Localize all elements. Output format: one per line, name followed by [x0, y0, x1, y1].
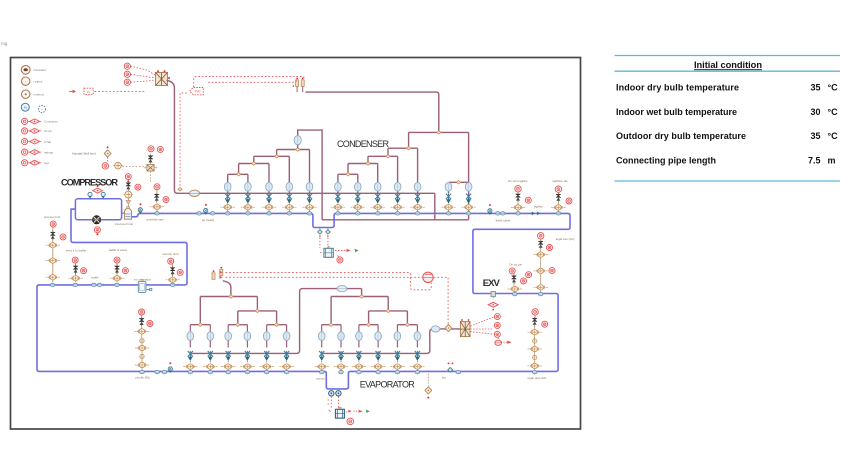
legend icon 4 blue pair [21, 103, 29, 111]
evaporator right distribution tree [322, 289, 418, 325]
svg-text:air (lead): air (lead) [202, 218, 214, 222]
left cascade riser/bridge [298, 130, 322, 220]
sensor circle [525, 197, 531, 203]
discharge component [156, 70, 171, 85]
defrost diamond below [427, 374, 429, 387]
pipe tee fitting [329, 323, 333, 327]
sensor circle [114, 257, 120, 263]
pipe tee fitting [386, 155, 390, 159]
svg-text:Indoor dry bulb temperature: Indoor dry bulb temperature [616, 82, 739, 92]
evaporator branch 8 (fan, air arrow, valve cluster, port) [334, 325, 348, 374]
svg-text:fresh cable: fresh cable [496, 219, 511, 223]
intercooler chain [127, 180, 129, 182]
svg-text:Pv0: Pv0 [195, 90, 201, 94]
svg-text:Connecting pipe length: Connecting pipe length [616, 156, 716, 166]
sensor circle [124, 63, 130, 69]
svg-text:baffle: baffle [91, 276, 99, 280]
sensor circle [566, 198, 572, 204]
svg-text:°C: °C [828, 82, 839, 92]
sensor circle [515, 186, 521, 192]
sensor circle [148, 146, 154, 152]
pipe tee fitting [437, 131, 441, 135]
svg-text:COMPRESSOR: COMPRESSOR [61, 177, 118, 187]
svg-text:35: 35 [810, 82, 820, 92]
svg-text:electric limit: electric limit [162, 252, 178, 256]
suction teal valve [138, 208, 142, 214]
condenser branch 6 (fan, air arrow, valve cluster, port) [331, 182, 345, 215]
svg-text:°C: °C [828, 107, 839, 117]
sensor circle [72, 257, 78, 263]
pipe tee fitting [274, 323, 278, 327]
svg-text:~: ~ [41, 107, 43, 111]
svg-text:techfrde rate: techfrde rate [146, 218, 164, 222]
svg-text:7.5: 7.5 [808, 156, 821, 166]
sensor circle [547, 245, 553, 251]
svg-text:35: 35 [810, 131, 820, 141]
control dashed lines top [180, 77, 304, 187]
svg-text:fan: fan [442, 375, 447, 379]
controller circle [423, 272, 433, 282]
pipe tee fitting [346, 173, 350, 177]
svg-text:CONDENSER: CONDENSER [337, 139, 390, 149]
pipe tee fitting [255, 309, 259, 313]
evaporator left distribution tree [190, 281, 286, 325]
svg-text:Rt: Rt [24, 106, 27, 110]
sensor circle [135, 184, 141, 190]
sensor circle [124, 79, 130, 85]
evaporator branch 2 (fan, air arrow, valve cluster, port) [203, 325, 217, 374]
pipe tee fitting [406, 146, 410, 150]
loop top fittings [88, 192, 105, 198]
condenser branch 2 (fan, air arrow, valve cluster, port) [241, 182, 255, 215]
sensor circle [532, 309, 538, 315]
svg-text:EXV: EXV [483, 278, 501, 289]
air inlet assembly left of condenser [197, 212, 202, 215]
evaporator branch 3 (fan, air arrow, valve cluster, port) [221, 325, 235, 374]
intercooler vessel [124, 207, 131, 220]
discharge riser + condenser header [167, 81, 435, 194]
legend icon 3 [22, 90, 30, 98]
svg-text:30: 30 [810, 107, 820, 117]
Pv tag box [190, 88, 204, 95]
condenser branch 7 (fan, air arrow, valve cluster, port) [351, 182, 365, 215]
evaporator branch 11 (fan, air arrow, valve cluster, port) [390, 325, 404, 374]
legend red item [22, 138, 42, 144]
diagram frame [11, 58, 581, 430]
svg-text:htr eb: htr eb [44, 129, 52, 133]
red oval + arrow [495, 340, 512, 345]
pipe tee fitting [252, 162, 256, 166]
svg-text:method: method [34, 93, 44, 97]
fan valve on return [448, 367, 453, 372]
outdoor fan unit [460, 319, 470, 337]
svg-text:baffle & wave: baffle & wave [109, 248, 128, 252]
sensor circle [163, 197, 169, 203]
sensor circle [494, 322, 500, 328]
svg-text:On strin agilley: On strin agilley [508, 179, 528, 183]
pipe tee fitting [386, 309, 390, 313]
bottom chain 4 (electric) [172, 264, 174, 282]
sensor circle [538, 233, 544, 239]
condenser branch 4 (fan, air arrow, valve cluster, port) [282, 182, 296, 215]
tan diamond on evap feed w/ sensor drop [445, 324, 452, 331]
evaporator branch 9 (fan, air arrow, valve cluster, port) [352, 325, 366, 374]
svg-text:Pv: Pv [87, 90, 91, 94]
header mid ellipse [337, 285, 347, 291]
receiver diamonds under condenser [318, 228, 331, 237]
pipe tee fitting [198, 323, 202, 327]
sensor circle [347, 418, 354, 425]
legend icon 1 [21, 65, 30, 74]
evaporator branch 10 (fan, air arrow, valve cluster, port) [371, 325, 385, 374]
sensor circle [521, 278, 527, 284]
sensor circle [177, 269, 183, 275]
left chain (saturated) [52, 227, 54, 282]
sensor circle [94, 227, 100, 233]
sight glass [324, 247, 333, 257]
condenser mid distribution tree [338, 132, 469, 193]
bottom chain 2 [74, 263, 76, 282]
sensor circle [60, 234, 66, 240]
sensor circle [526, 272, 532, 278]
sensor circle [124, 71, 130, 77]
legend red item [22, 149, 42, 155]
condenser left distribution tree [228, 150, 310, 194]
sensor circle [81, 268, 87, 274]
pipe tee fitting [359, 295, 363, 299]
svg-text:accum: accum [316, 376, 325, 380]
pipe tee fitting [229, 295, 233, 299]
gray comp on blue + diamond below [491, 292, 495, 300]
evaporator branch 1 (fan, air arrow, valve cluster, port) [183, 325, 197, 374]
svg-text:legal can (An): legal can (An) [556, 237, 575, 241]
bottom chain 3 [116, 263, 118, 282]
legend red item [22, 160, 42, 166]
evaporator branch 5 (fan, air arrow, valve cluster, port) [260, 325, 274, 374]
svg-text:translator: translator [34, 68, 47, 72]
condenser branch 11 (fan, air arrow, valve cluster, port) [441, 182, 455, 215]
sensor circle [168, 258, 174, 264]
svg-text:Handak Well fend: Handak Well fend [72, 152, 96, 156]
svg-text:agilforte die: agilforte die [552, 179, 568, 183]
svg-text:test: test [44, 161, 49, 165]
svg-text:legal pipe (Rt): legal pipe (Rt) [528, 376, 547, 380]
compressor [92, 216, 100, 224]
condenser branch 12 (fan, air arrow, valve cluster, port) [461, 182, 475, 215]
sensor circle [154, 184, 160, 190]
pipe tee fitting [274, 155, 278, 159]
header inlet ellipse [190, 190, 200, 196]
orifice pair feeding evap trees [212, 267, 223, 280]
sensor circle [494, 331, 500, 337]
sensor circle [494, 314, 500, 320]
condenser feed top line [306, 92, 439, 132]
pipe tee fitting [456, 181, 460, 185]
evaporator branch 6 (fan, air arrow, valve cluster, port) [279, 325, 293, 374]
svg-text:On by cat: On by cat [509, 263, 522, 267]
condenser branch 1 (fan, air arrow, valve cluster, port) [221, 182, 235, 215]
svg-text:ratings: ratings [44, 150, 54, 154]
legend sample dashed line [69, 88, 146, 94]
svg-text:agilley: agilley [534, 205, 543, 209]
svg-text:EVAPORATOR: EVAPORATOR [360, 380, 416, 390]
sensor circle [102, 163, 108, 169]
feed orifice pair [297, 87, 303, 93]
evaporator feed headers [190, 289, 361, 354]
sensor circle [157, 146, 163, 152]
svg-text:t pipes: t pipes [34, 80, 43, 84]
svg-text:feed it to baffle: feed it to baffle [66, 248, 87, 252]
pipe fitting [533, 355, 537, 359]
svg-text:intercool limit: intercool limit [115, 222, 133, 226]
pipe tee fitting [236, 173, 240, 177]
condenser right pair + liquid line [322, 132, 469, 219]
condenser branch 3 (fan, air arrow, valve cluster, port) [262, 182, 276, 215]
legend icon 2 [22, 77, 30, 85]
sensor circle [122, 268, 128, 274]
sensor circle [139, 309, 145, 315]
initial condition table [615, 56, 841, 182]
condenser branch 5 (fan, air arrow, valve cluster, port) [302, 182, 316, 215]
pipe tee fitting [296, 148, 300, 152]
condenser branch 8 (fan, air arrow, valve cluster, port) [371, 182, 385, 215]
accumulator circles [329, 391, 342, 396]
cascade top ellipse [294, 136, 301, 145]
sensor circle [555, 186, 561, 192]
pipe tee fitting [236, 323, 240, 327]
pipe fitting [533, 339, 537, 343]
pipe tee fitting [366, 162, 370, 166]
legend red item [22, 118, 42, 124]
sensor circle [542, 321, 548, 327]
accumulator vessel [335, 408, 344, 418]
svg-text:Indoor wet bulb temperature: Indoor wet bulb temperature [616, 107, 737, 117]
svg-text:m: m [828, 156, 836, 166]
pipe tee fitting [405, 323, 409, 327]
long dashed sensor lines [226, 272, 449, 324]
svg-text:°C: °C [828, 131, 839, 141]
sensor circle [509, 268, 515, 274]
compressor loop [75, 199, 121, 220]
svg-text:Initial condition: Initial condition [694, 60, 762, 70]
evaporator branch 7 (fan, air arrow, valve cluster, port) [315, 325, 329, 374]
main blue air/suction loop [37, 209, 570, 389]
sensor circle [337, 257, 343, 263]
legend red item [22, 128, 42, 134]
top row components x487-570 [488, 209, 492, 215]
svg-text:Outdoor dry bulb temperature: Outdoor dry bulb temperature [616, 131, 746, 141]
sensor circle [125, 174, 131, 180]
svg-text:Consumer: Consumer [44, 120, 58, 124]
condenser branch 9 (fan, air arrow, valve cluster, port) [390, 182, 404, 215]
sensor circle [549, 268, 555, 274]
svg-text:pluckk (Rt): pluckk (Rt) [135, 376, 149, 380]
svg-text:mg: mg [1, 41, 8, 46]
svg-text:tc lab: tc lab [44, 140, 52, 144]
sensor circle [147, 321, 153, 327]
condenser branch 10 (fan, air arrow, valve cluster, port) [410, 182, 424, 215]
pipe tee fitting [366, 323, 370, 327]
evaporator branch 4 (fan, air arrow, valve cluster, port) [240, 325, 254, 374]
svg-text:precise limit: precise limit [44, 215, 60, 219]
sensor circle [50, 221, 56, 227]
evaporator branch 12 (fan, air arrow, valve cluster, port) [410, 325, 424, 374]
